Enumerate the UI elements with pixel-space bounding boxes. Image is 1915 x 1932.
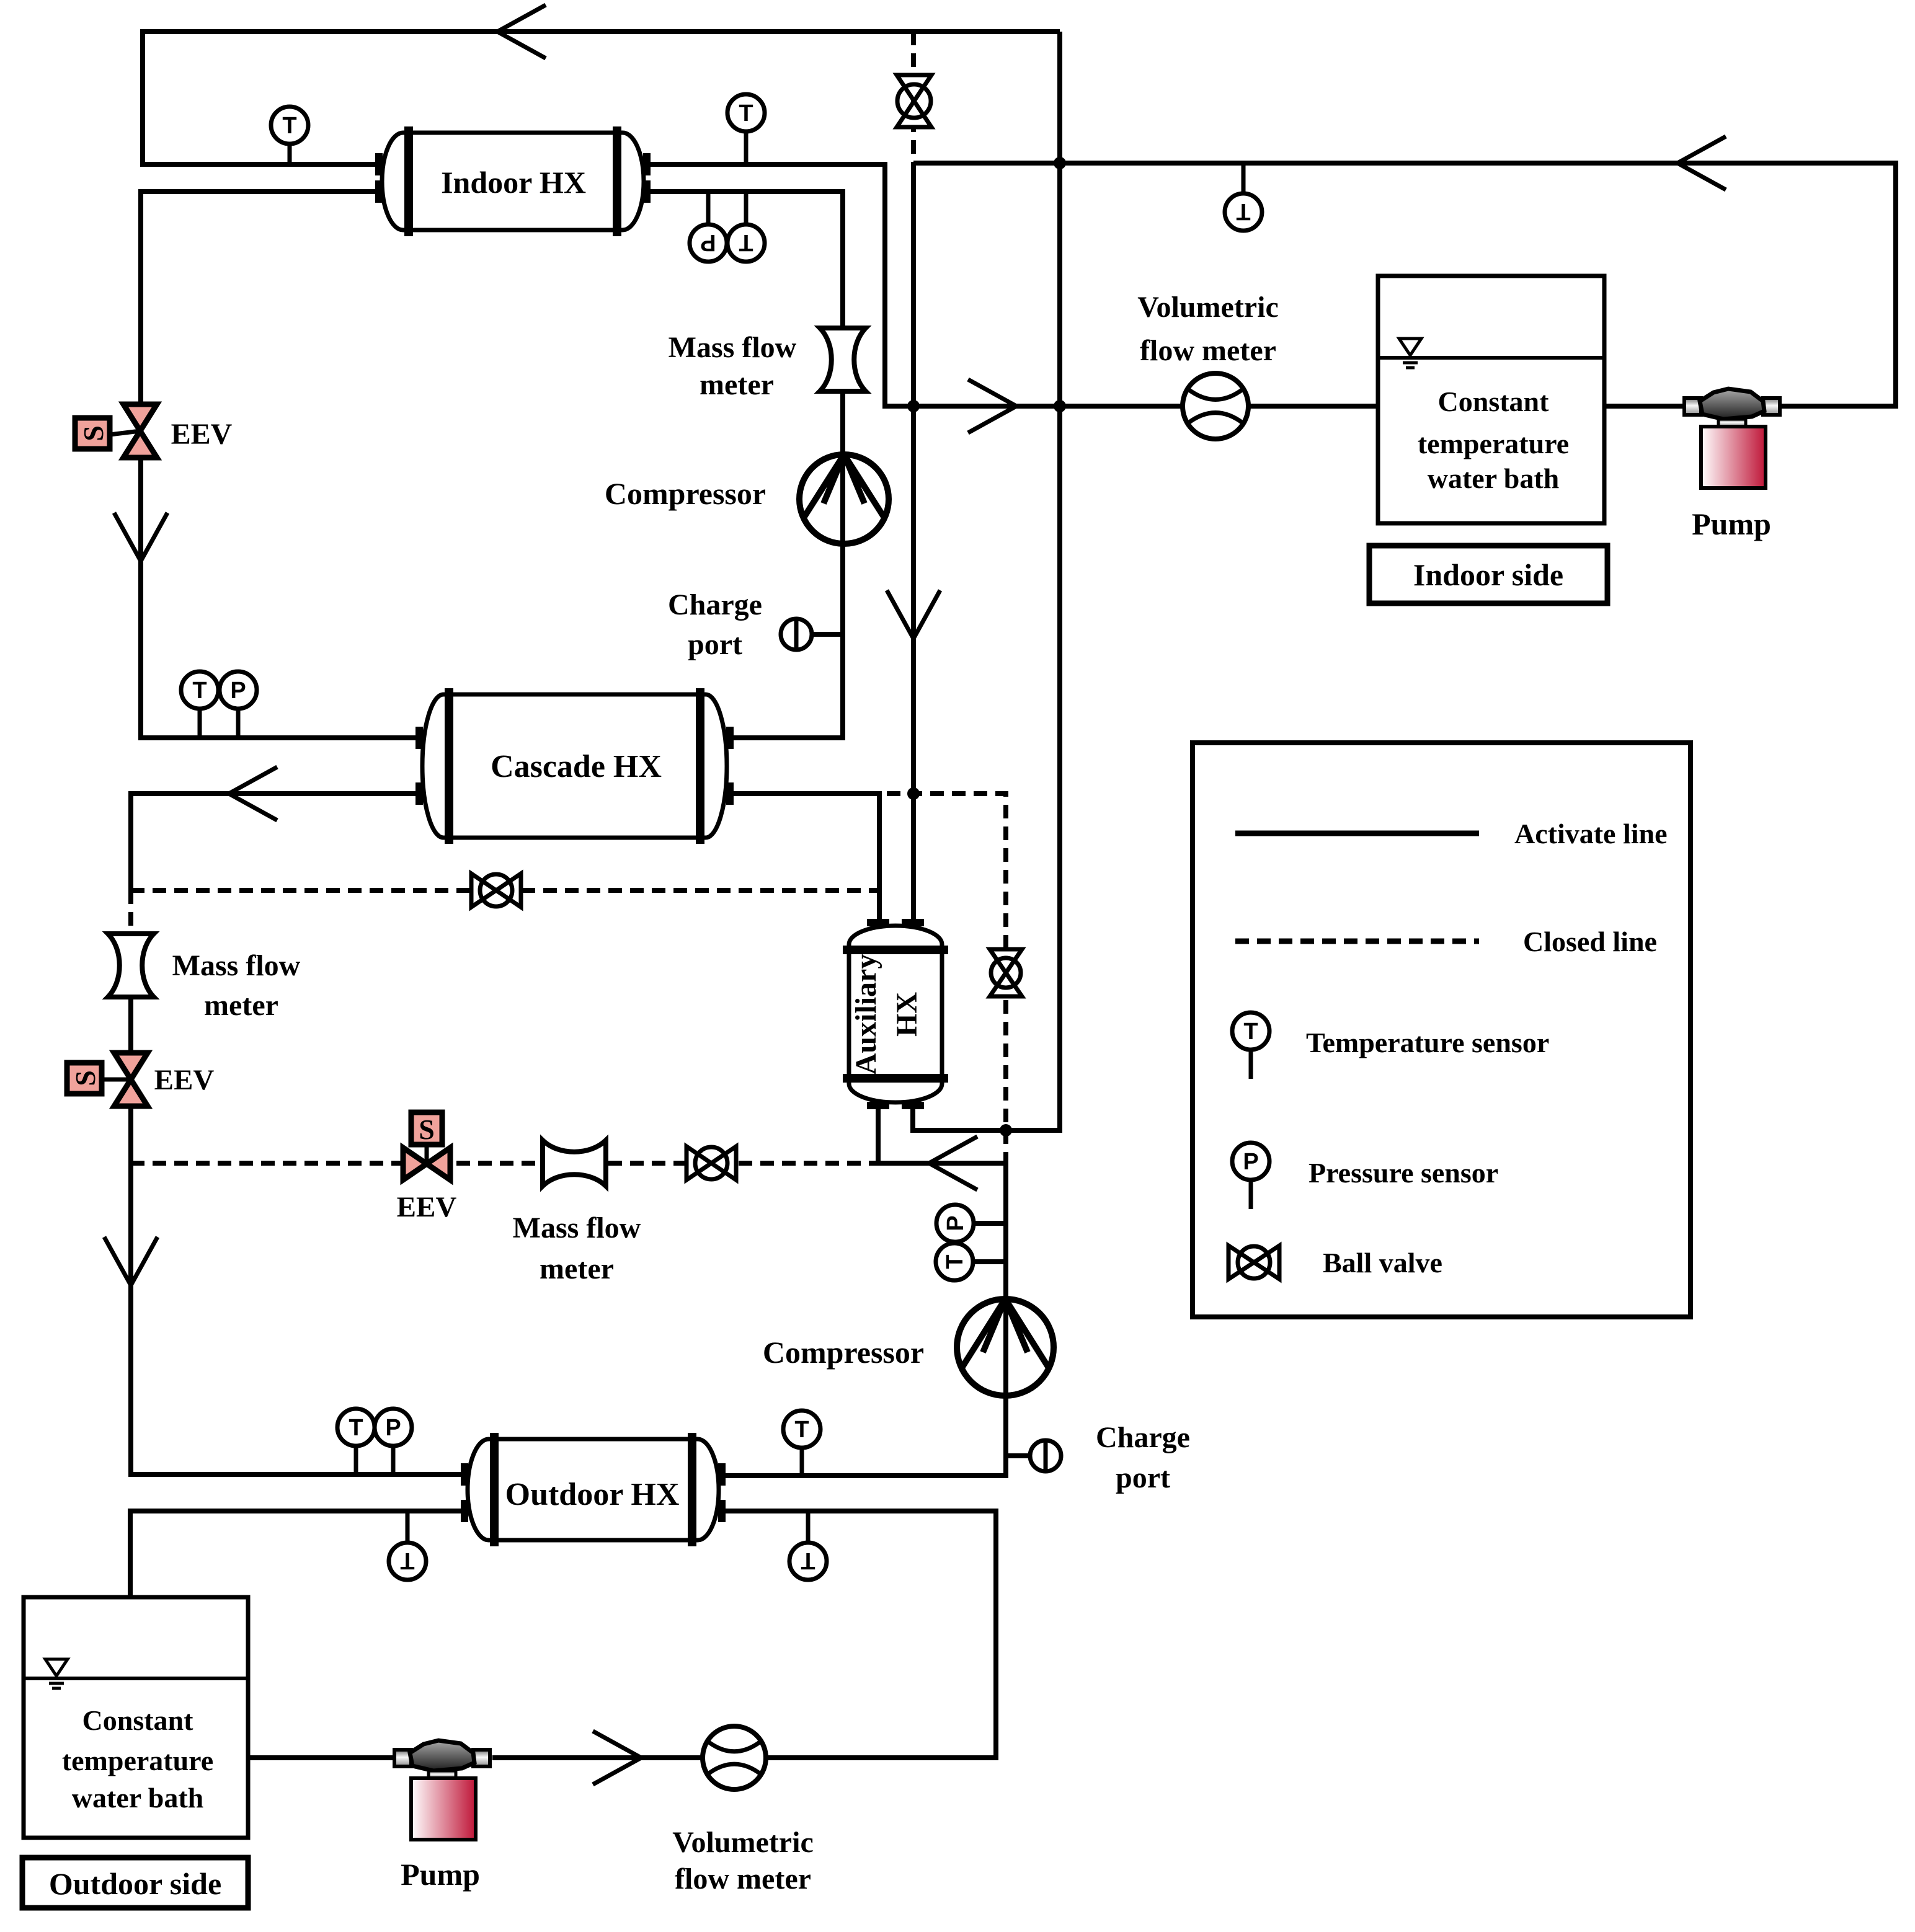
svg-text:Mass flow: Mass flow: [513, 1212, 641, 1244]
svg-text:Charge: Charge: [668, 588, 762, 621]
svg-text:T: T: [1236, 198, 1250, 224]
svg-text:EEV: EEV: [397, 1191, 457, 1223]
svg-text:T: T: [739, 229, 753, 255]
svg-text:Mass flow: Mass flow: [669, 331, 797, 364]
svg-text:Volumetric: Volumetric: [672, 1826, 814, 1859]
svg-text:P: P: [1243, 1149, 1258, 1175]
svg-text:temperature: temperature: [62, 1745, 213, 1776]
svg-text:port: port: [1116, 1461, 1170, 1494]
svg-text:Cascade HX: Cascade HX: [491, 749, 662, 784]
svg-text:Ball valve: Ball valve: [1323, 1247, 1442, 1278]
svg-text:T: T: [1243, 1019, 1258, 1045]
svg-text:Pump: Pump: [401, 1857, 480, 1892]
svg-text:water bath: water bath: [72, 1782, 204, 1814]
svg-text:T: T: [801, 1548, 815, 1574]
svg-text:Charge: Charge: [1096, 1421, 1190, 1454]
svg-text:Indoor HX: Indoor HX: [441, 165, 586, 200]
svg-text:P: P: [700, 229, 716, 255]
svg-text:Constant: Constant: [1438, 386, 1550, 417]
svg-text:P: P: [230, 678, 246, 704]
svg-text:S: S: [78, 425, 109, 441]
svg-text:Compressor: Compressor: [605, 476, 766, 511]
svg-text:T: T: [942, 1254, 968, 1269]
svg-text:T: T: [282, 113, 296, 139]
svg-text:HX: HX: [891, 992, 923, 1037]
svg-text:Temperature sensor: Temperature sensor: [1306, 1027, 1549, 1058]
svg-text:EEV: EEV: [154, 1064, 215, 1096]
svg-text:EEV: EEV: [171, 418, 233, 451]
svg-text:Closed line: Closed line: [1523, 926, 1657, 957]
svg-text:meter: meter: [204, 989, 278, 1022]
svg-text:meter: meter: [700, 368, 774, 401]
svg-text:port: port: [688, 628, 742, 661]
svg-text:temperature: temperature: [1418, 428, 1569, 459]
svg-text:Mass flow: Mass flow: [172, 949, 301, 982]
svg-text:Volumetric: Volumetric: [1137, 291, 1279, 324]
svg-text:Activate line: Activate line: [1514, 818, 1668, 849]
svg-text:Outdoor HX: Outdoor HX: [505, 1477, 680, 1512]
svg-text:T: T: [192, 678, 207, 704]
svg-text:meter: meter: [540, 1252, 614, 1285]
svg-text:water bath: water bath: [1428, 463, 1560, 494]
svg-text:P: P: [385, 1415, 401, 1441]
svg-text:Pump: Pump: [1692, 507, 1771, 541]
svg-text:Outdoor side: Outdoor side: [49, 1866, 221, 1901]
svg-text:T: T: [739, 100, 753, 126]
svg-text:Indoor side: Indoor side: [1413, 557, 1563, 592]
svg-text:Compressor: Compressor: [763, 1335, 924, 1370]
svg-text:P: P: [943, 1215, 969, 1231]
svg-text:T: T: [349, 1415, 363, 1441]
svg-text:T: T: [400, 1548, 414, 1574]
svg-text:Constant: Constant: [82, 1704, 194, 1736]
svg-text:flow meter: flow meter: [675, 1863, 811, 1895]
svg-text:T: T: [794, 1417, 809, 1443]
svg-text:flow meter: flow meter: [1140, 334, 1276, 367]
svg-text:Auxiliary: Auxiliary: [850, 954, 882, 1075]
svg-text:Pressure sensor: Pressure sensor: [1309, 1157, 1498, 1189]
svg-text:S: S: [69, 1070, 101, 1086]
svg-text:S: S: [419, 1114, 435, 1145]
